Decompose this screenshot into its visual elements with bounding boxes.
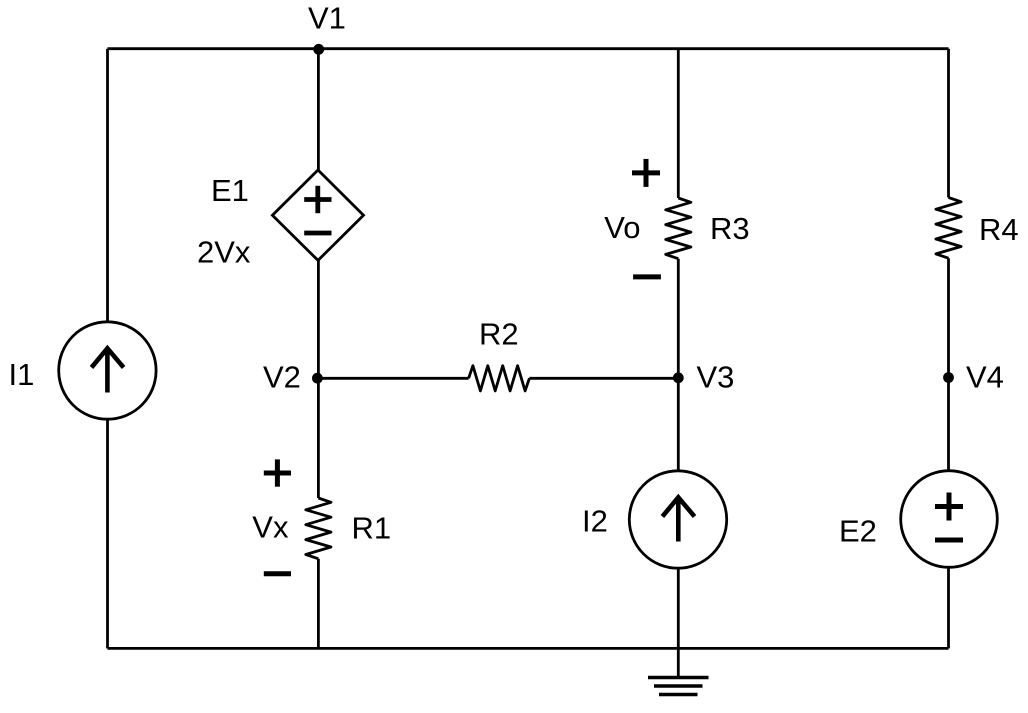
node V2 [312, 373, 323, 384]
wire E2 to bottom [947, 567, 950, 648]
svg-text:V1: V1 [308, 1, 346, 36]
wire R3 to V3 [677, 259, 680, 471]
svg-text:V4: V4 [966, 360, 1004, 395]
svg-text:V3: V3 [697, 360, 735, 395]
wire top rail [108, 47, 949, 50]
wire left rail lower [106, 419, 109, 649]
svg-text:R1: R1 [352, 511, 392, 546]
dependent source E1 diamond [272, 170, 363, 260]
svg-text:Vx: Vx [252, 510, 289, 545]
resistor R1 [306, 498, 331, 559]
wire E1 bottom to V2 [317, 260, 320, 378]
wire I2 to bottom [677, 568, 680, 676]
svg-text:V2: V2 [263, 360, 301, 395]
wire top rail to R3 [677, 49, 680, 198]
svg-text:R3: R3 [710, 211, 750, 246]
svg-text:R2: R2 [479, 317, 519, 352]
label Vx minus [264, 571, 291, 576]
wire V2 to R2 [318, 377, 468, 380]
current source I2 [629, 471, 726, 568]
wire left rail upper [106, 49, 109, 323]
ground [648, 676, 709, 679]
resistor R4 [936, 198, 961, 259]
label Vo minus [633, 274, 661, 279]
wire R2 to V3 [529, 377, 678, 380]
wire V2 to R1 [317, 378, 320, 498]
resistor R2 [469, 366, 530, 391]
node V3 [673, 372, 684, 383]
wire top rail to R4 [947, 49, 950, 198]
label Vx plus [264, 471, 291, 476]
wire V1 to E1 top [317, 49, 320, 170]
svg-text:Vo: Vo [604, 210, 640, 245]
wire bottom rail [108, 647, 949, 650]
current source I1 [59, 322, 156, 419]
svg-text:2Vx: 2Vx [197, 235, 251, 270]
wire R1 to bottom [317, 559, 320, 649]
svg-text:I1: I1 [9, 357, 35, 392]
label Vo plus [632, 170, 660, 175]
wire R4 to V4 [947, 258, 950, 471]
svg-text:R4: R4 [979, 212, 1019, 247]
node V1 [313, 44, 324, 55]
svg-text:I2: I2 [582, 504, 608, 539]
voltage source E2 [901, 471, 998, 568]
svg-text:E2: E2 [839, 514, 877, 549]
resistor R3 [666, 198, 691, 259]
node V4 [943, 372, 954, 383]
svg-text:E1: E1 [211, 173, 249, 208]
